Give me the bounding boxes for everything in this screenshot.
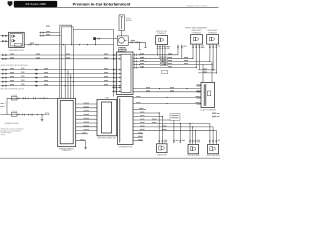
wire top loop 2 [61,27,73,45]
P3 pin 1 row [133,112,159,114]
wire S1 w1 [158,113,160,144]
tweeter T2 [191,35,203,45]
svg-text:CHOKE: CHOKE [12,95,17,97]
P3 pin 2 row [133,116,162,118]
P3 pin 5 row [133,126,213,128]
antenna amplifier [117,36,128,46]
wire CD row 1 [133,88,201,90]
svg-text:Premium In-Car Entertainment: Premium In-Car Entertainment [73,2,131,7]
wire T1 w3 [162,45,164,62]
tick labels T wires [167,46,221,49]
wire T1 w4 [164,45,166,65]
P3 pin 3 row [133,119,174,121]
wire radio bottom stub 1 [112,87,121,89]
wire IP output row [24,44,113,46]
wire radio pin r4 [133,64,214,66]
svg-text:CD AUTOCHANGER: CD AUTOCHANGER [200,109,217,112]
junction dots on IP row [63,44,96,45]
wire CD pin 2 [197,90,201,92]
P3 pin 8 stub [133,136,143,138]
wire T3 w3 [215,44,217,73]
wires P1 to P2 [76,104,97,131]
row blobs and labels [35,69,37,70]
tweeter T1 [156,36,168,45]
P3 pin 9 stub [133,140,143,142]
svg-text:RIGHT SIDE SPKR: RIGHT SIDE SPKR [206,155,220,157]
wire top loop 1 [60,25,72,44]
wire S2 w1 [189,123,191,144]
svg-text:N: N [4,106,5,108]
wire left stub 2 [1,105,4,107]
connector label box fan [170,114,180,121]
wire labels scatter left rows [10,54,108,86]
wire amp drop 1 [139,42,141,49]
wire radio pin r1 [133,54,179,56]
svg-text:RIGHT SIDE SPEAKERS: RIGHT SIDE SPEAKERS [185,27,207,30]
wire T1 w2 [159,45,161,59]
bottom rule [0,157,220,159]
svg-text:AERIAL: AERIAL [126,19,132,22]
wire row D [1,73,122,75]
P3 pin b [133,108,146,110]
wire IP in 2 [1,41,9,42]
bus vertical 2 [67,70,69,99]
wire row B [1,58,122,60]
component plate right rows [162,70,168,73]
power amplifier P3 [118,97,134,145]
wire S2 w3 [195,130,197,144]
bus vertical 0b [60,36,62,99]
wire NC stub 2 [179,123,181,143]
radio left pin arrows [119,54,121,56]
bottom row 1 component [11,97,17,100]
wire antenna feed [121,30,123,36]
tweeter T3 [207,35,219,45]
wire row E [1,77,122,79]
bus vertical 1 [64,45,66,99]
bottom row 2 [1,114,45,116]
wire IP in 1 [1,35,9,36]
wire CD row 2 [133,91,201,93]
svg-text:SUBWOOFER: SUBWOOFER [157,154,168,156]
speaker S3 [208,144,219,153]
bus vertical 4 [72,45,74,99]
P1 lower out 1 [76,133,88,135]
P1 lower out 2 [76,141,86,148]
svg-text:LEFT SIDE SPKR: LEFT SIDE SPKR [187,155,200,157]
junction dot amp row [139,42,140,43]
wire S2 w2 [192,127,194,144]
wire CD pin 1 [197,84,201,86]
wire CD pin 4 [197,103,201,105]
radio head unit [117,52,134,95]
ground [41,120,44,122]
bottom row 1 [7,97,58,99]
wire radio pin r5 [133,67,197,69]
node loop connectors [40,32,62,36]
wire amp feed [96,38,117,40]
CD pin plates [197,85,200,105]
wire mid stub 2 [181,45,183,59]
speaker S2 [188,144,199,153]
connector P1 [58,98,76,146]
wire P3 to CD row 2 [133,103,201,105]
row 2 end plate [45,113,49,115]
bottom row 2 component [11,113,17,116]
P3 pin 6 row [133,129,216,131]
speaker S1 [157,144,167,153]
wire S3 w1 [209,123,211,144]
wire labels scatter right rows [30,26,207,92]
wire antenna row left [73,29,112,31]
wire T1 w1 [157,45,159,55]
wire left join vertical [6,98,8,114]
antenna supply unit [93,37,96,40]
CD autochanger box [201,82,215,107]
svg-text:N: N [4,103,5,105]
wire P3 to CD row 1 [133,96,201,98]
svg-text:CONNECTOR: CONNECTOR [62,150,73,152]
instrument pack box [9,32,25,47]
svg-text:3/Z Series 1998: 3/Z Series 1998 [25,2,46,6]
wire row F [1,81,122,83]
svg-text:CASSETTE: CASSETTE [118,49,128,52]
wire T3 w2 [212,44,214,70]
wire radio pin r2 [133,57,194,59]
wire left stub 1 [1,102,4,104]
wire right short row 1 [198,69,216,71]
roof antenna [119,15,124,31]
wire row G [1,85,122,87]
antenna amp label plate [118,48,125,52]
wire T2 w3 [199,44,201,70]
tick labels S wires [164,140,220,143]
series title bar [14,1,57,7]
wire CD drop 2 [211,61,213,82]
wire mid stub 1 [177,45,179,55]
wire CD pin 3 [197,96,201,98]
P1-P2 wire labels [84,103,90,131]
wire row C [1,69,122,71]
bus vertical 3 [70,74,72,99]
connector label stack right rows [160,57,167,66]
wire S3 w2 [212,127,214,144]
svg-text:CHOKE: CHOKE [12,111,17,113]
wire radio bottom stub 2 [112,90,121,92]
P3 pin 4 row [133,122,210,124]
bus vertical 0a [59,33,61,99]
wire NC stub 1 [173,120,175,143]
header rule [14,7,219,9]
logo badge [8,1,13,6]
wire row A [1,54,122,56]
wire T2 w1 [192,44,194,58]
S1 pin ticks [158,140,163,142]
wire amp drop 2 [144,42,146,47]
P3 pin 7 stub [133,133,143,135]
wire amp output row [128,41,145,43]
corner stub 1 [217,112,220,114]
wire right short row 2 [198,72,216,74]
svg-text:FRONT DOOR: FRONT DOOR [156,31,168,33]
corner stub 2 [217,116,220,118]
junction dots radio pins [139,54,146,68]
wire S3 w3 [215,130,217,144]
wire supply drop [95,40,97,45]
wire S1 w2 [161,117,163,144]
svg-text:Diagram 18.1 of 18.2: Diagram 18.1 of 18.2 [187,5,208,8]
wire ground drop [41,115,43,120]
ground P1 [84,148,87,150]
wire T2 w2 [195,44,197,68]
wire T3 w1 [209,44,211,61]
wire left vertical feed [112,30,113,97]
connector P2 [97,100,117,136]
wire radio pin r3 [133,60,210,62]
wire CD drop 1 [202,65,204,83]
